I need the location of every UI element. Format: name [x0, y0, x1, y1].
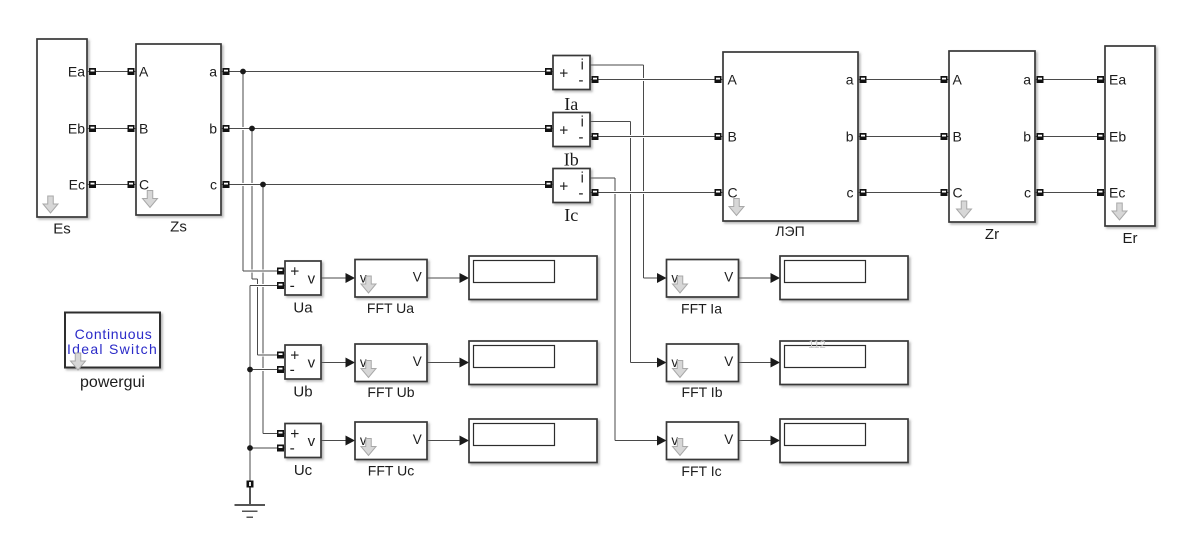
LEP port c	[860, 189, 867, 196]
Ub port plus	[277, 352, 284, 359]
svg-text:Ea: Ea	[1109, 72, 1126, 88]
block Zs source impedance	[136, 44, 221, 215]
wire Es.Ea to Zs.A	[87, 70, 136, 73]
wire Ic signal into FFT Ic	[615, 440, 658, 442]
svg-text:b: b	[846, 129, 854, 145]
wire Ic minus to LEP.C	[590, 191, 723, 194]
arrow into FFT Ia	[657, 273, 667, 283]
wire FFT Uc to display Uc	[427, 440, 460, 442]
wire Ib minus to LEP.B	[590, 135, 723, 138]
node junction row c	[260, 182, 266, 188]
block FFT Ua	[355, 260, 427, 298]
Es port Ea	[89, 68, 96, 75]
wire vertical Ib signal	[630, 122, 632, 363]
Zs port B	[128, 125, 135, 132]
wire Ub out to FFT Ub	[321, 362, 346, 364]
wire LEP.a to Zr.A	[858, 79, 949, 81]
wire vertical net-a branch to Ua+	[242, 72, 244, 272]
wire Zs.c to Ic.plus	[221, 183, 553, 186]
svg-text:Zs: Zs	[170, 219, 187, 236]
wire vertical net-c branch to Uc+	[262, 185, 264, 434]
svg-text:V: V	[724, 270, 733, 285]
FFT Uc mask arrow	[361, 439, 376, 456]
wire vertical Ic signal	[614, 178, 616, 441]
Ua port plus	[277, 268, 284, 275]
block Ia current measurement	[553, 56, 590, 90]
svg-text:Ea: Ea	[68, 64, 85, 80]
svg-text:ЛЭП: ЛЭП	[775, 223, 804, 239]
block FFT Ia	[667, 260, 739, 298]
Zr port b	[1037, 133, 1044, 140]
display Uc scope	[469, 419, 597, 463]
Uc port plus	[277, 430, 284, 437]
svg-text:V: V	[724, 432, 733, 447]
wire Ua minus to common	[250, 284, 285, 287]
svg-text:V: V	[413, 432, 422, 447]
svg-text:FFT Ia: FFT Ia	[681, 301, 722, 317]
svg-text:b: b	[1023, 129, 1031, 145]
wire vertical common minus to ground	[249, 286, 251, 491]
svg-text:FFT Uc: FFT Uc	[368, 462, 414, 478]
svg-text:Eb: Eb	[68, 121, 85, 137]
svg-text:-: -	[578, 129, 583, 146]
svg-text:Ec: Ec	[1109, 185, 1125, 201]
Zs port a	[223, 68, 230, 75]
block Ua voltage measurement	[285, 261, 321, 295]
Er port Ea	[1097, 76, 1104, 83]
block FFT Ib	[667, 344, 739, 382]
svg-text:Ib: Ib	[564, 149, 579, 169]
Zs port C	[128, 181, 135, 188]
wire Ua out to FFT Ua	[321, 277, 346, 279]
wire Es.Eb to Zs.B	[87, 127, 136, 130]
svg-text:Uc: Uc	[294, 462, 313, 479]
block Ic current measurement	[553, 169, 590, 203]
Zr port B	[941, 133, 948, 140]
svg-text:-: -	[578, 185, 583, 202]
svg-text:B: B	[139, 121, 148, 137]
svg-text:c: c	[847, 185, 854, 201]
wire Zr.b to Er.Eb	[1035, 136, 1105, 138]
block LEP transmission line	[723, 52, 858, 221]
svg-text:V: V	[724, 354, 733, 369]
svg-text:-: -	[290, 362, 295, 379]
Er port Eb	[1097, 133, 1104, 140]
Es mask arrow	[43, 196, 58, 213]
wire FFT Ia to display Ia	[739, 277, 772, 279]
block FFT Ub	[355, 344, 427, 382]
LEP port b	[860, 133, 867, 140]
LEP port a	[860, 76, 867, 83]
wire Zr.c to Er.Ec	[1035, 192, 1105, 194]
wire branch b to Ub plus	[258, 354, 286, 357]
svg-text:FFT Ib: FFT Ib	[682, 384, 723, 400]
wire FFT Ub to display Ub	[427, 362, 460, 364]
display Ub scope	[469, 341, 597, 385]
display Ic scope	[780, 419, 908, 463]
svg-text:c: c	[210, 177, 217, 193]
wire vertical net-b branch lower (jogged)	[252, 279, 258, 355]
LEP port B	[715, 133, 722, 140]
Es port Eb	[89, 125, 96, 132]
svg-text:+: +	[559, 123, 568, 140]
Ib port minus	[592, 133, 599, 140]
svg-text:Er: Er	[1123, 230, 1138, 247]
wire branch c to Uc plus	[263, 433, 285, 435]
wire FFT Ib to display Ib	[739, 362, 772, 364]
svg-text:-: -	[290, 278, 295, 295]
svg-text:-: -	[578, 72, 583, 89]
Zr mask arrow	[957, 201, 972, 218]
svg-text:powergui: powergui	[80, 374, 145, 391]
arrow into FFT Ub	[346, 358, 356, 368]
svg-text:Es: Es	[53, 221, 71, 238]
node junction row b	[249, 126, 255, 132]
block Er receiving source	[1105, 46, 1155, 226]
block Zr receiving impedance	[949, 51, 1035, 222]
wire Uc minus to common	[250, 447, 285, 450]
wire vertical Ia signal	[643, 65, 645, 278]
svg-text:a: a	[209, 64, 217, 80]
svg-text:Ua: Ua	[293, 300, 313, 317]
block Ib current measurement	[553, 113, 590, 147]
Zs port b	[223, 125, 230, 132]
ground port	[247, 481, 254, 488]
svg-text:B: B	[953, 129, 962, 145]
svg-text:A: A	[728, 72, 738, 88]
svg-text:v: v	[308, 433, 316, 450]
Es port Ec	[89, 181, 96, 188]
Zr port c	[1037, 189, 1044, 196]
wire Zs.a to Ia.plus	[221, 70, 553, 73]
LEP port C	[715, 189, 722, 196]
wire Ib i-output horizontal	[590, 121, 631, 123]
Ic port plus	[545, 181, 552, 188]
svg-text:b: b	[209, 121, 217, 137]
ground symbol	[235, 488, 266, 518]
wire Ib signal into FFT Ib	[631, 362, 658, 364]
wire LEP.c to Zr.C	[858, 192, 949, 194]
arrow into FFT Uc	[346, 436, 356, 446]
svg-text:V: V	[413, 270, 422, 285]
block FFT Ic	[667, 422, 739, 460]
svg-text:A: A	[139, 64, 149, 80]
arrow into display Ub	[460, 358, 470, 368]
node junction common minus at Uc	[247, 445, 253, 451]
svg-text:a: a	[846, 72, 854, 88]
wire Zs.b to Ib.plus	[221, 127, 553, 130]
node junction row a	[240, 69, 246, 75]
svg-text:+: +	[559, 179, 568, 196]
svg-text:V: V	[413, 354, 422, 369]
svg-text:FFT Ua: FFT Ua	[367, 300, 414, 316]
wire FFT Ua to display Ua	[427, 277, 460, 279]
FFT Ub mask arrow	[361, 361, 376, 378]
wire Ic i-output horizontal	[590, 177, 615, 179]
arrow into display Uc	[460, 436, 470, 446]
arrow into display Ia	[771, 273, 781, 283]
wire Ia i-output horizontal	[590, 64, 644, 66]
svg-text:+: +	[559, 66, 568, 83]
Uc port minus	[277, 445, 284, 452]
block Uc voltage measurement	[285, 424, 321, 458]
arrow into display Ua	[460, 273, 470, 283]
wire FFT Ic to display Ic	[739, 440, 772, 442]
Zs port c	[223, 181, 230, 188]
display Ib scope	[780, 339, 908, 385]
Ia port plus	[545, 68, 552, 75]
Zs mask arrow	[143, 191, 158, 208]
arrow into FFT Ic	[657, 436, 667, 446]
svg-text:a: a	[1023, 72, 1031, 88]
arrow into FFT Ua	[346, 273, 356, 283]
Zr port A	[941, 76, 948, 83]
Ua port minus	[277, 282, 284, 289]
display Ia scope	[780, 256, 908, 300]
FFT Ib mask arrow	[673, 361, 688, 378]
Zr port C	[941, 189, 948, 196]
Zr port a	[1037, 76, 1044, 83]
Ia port minus	[592, 76, 599, 83]
svg-text:Eb: Eb	[1109, 129, 1126, 145]
Ib port plus	[545, 125, 552, 132]
wire branch a to Ua plus	[243, 270, 285, 273]
wire Ub minus to common	[250, 368, 285, 371]
wire vertical net-b branch upper	[251, 129, 253, 280]
svg-text:v: v	[308, 270, 316, 287]
Zs port A	[128, 68, 135, 75]
wire LEP.b to Zr.B	[858, 136, 949, 138]
wire Ia minus to LEP.A	[590, 78, 723, 81]
display Ua scope	[469, 256, 597, 300]
svg-text:Continuous: Continuous	[75, 326, 153, 342]
wire Zr.a to Er.Ea	[1035, 79, 1105, 81]
block powergui	[65, 313, 160, 368]
svg-text:Ec: Ec	[69, 177, 85, 193]
svg-text:A: A	[953, 72, 963, 88]
svg-text:B: B	[728, 129, 737, 145]
arrow into display Ic	[771, 436, 781, 446]
LEP port A	[715, 76, 722, 83]
svg-text:C: C	[953, 185, 963, 201]
Er mask arrow	[1112, 203, 1127, 220]
wire Uc out to FFT Uc	[321, 440, 346, 442]
svg-text:FFT Ub: FFT Ub	[367, 384, 414, 400]
svg-text:Zr: Zr	[985, 226, 999, 243]
svg-text:-: -	[290, 440, 295, 457]
svg-text:c: c	[1024, 185, 1031, 201]
Er port Ec	[1097, 189, 1104, 196]
svg-text:Ia: Ia	[564, 94, 578, 114]
svg-text:v: v	[308, 354, 316, 371]
svg-text:FFT Ic: FFT Ic	[681, 463, 721, 479]
svg-text:112: 112	[808, 339, 826, 351]
arrow into FFT Ib	[657, 358, 667, 368]
node junction common minus at Ub	[247, 367, 253, 373]
FFT Ua mask arrow	[361, 276, 376, 293]
wire Ia signal into FFT Ia	[644, 277, 658, 279]
FFT Ic mask arrow	[673, 439, 688, 456]
FFT Ia mask arrow	[673, 276, 688, 293]
block Es three-phase source	[37, 39, 87, 217]
svg-text:Ub: Ub	[293, 384, 312, 401]
svg-text:Ic: Ic	[564, 205, 578, 225]
Ub port minus	[277, 366, 284, 373]
Ic port minus	[592, 189, 599, 196]
block Ub voltage measurement	[285, 345, 321, 379]
wire Es.Ec to Zs.C	[87, 183, 136, 186]
arrow into display Ib	[771, 358, 781, 368]
LEP mask arrow	[729, 199, 744, 216]
powergui mask arrow	[71, 353, 86, 370]
block FFT Uc	[355, 422, 427, 460]
